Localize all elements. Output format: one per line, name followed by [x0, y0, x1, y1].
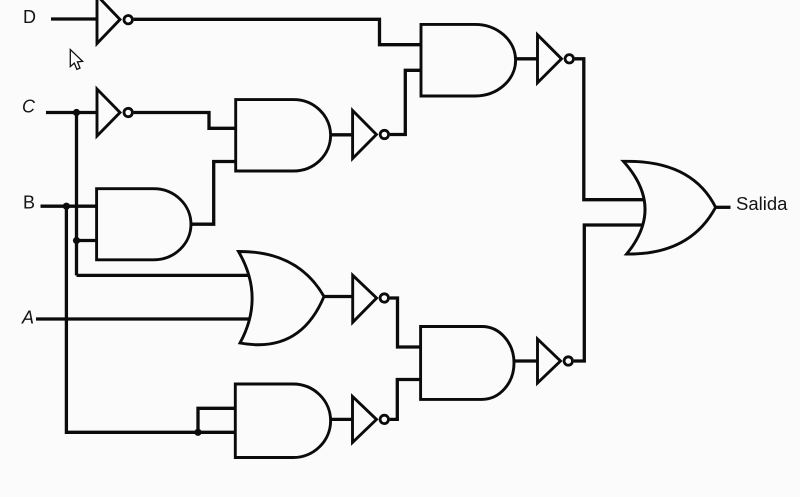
- OR gate U8 (C or A): [239, 251, 325, 344]
- wire C branch to OR U8 top input: [77, 274, 253, 277]
- junction dot on B branch bottom: [194, 429, 201, 436]
- wire branch to AND U10 top input: [198, 408, 235, 432]
- bubble U5: [380, 130, 388, 138]
- wire A input to OR U8 lower input: [36, 317, 254, 320]
- wire C input: [46, 111, 97, 114]
- bubble U7: [565, 55, 573, 63]
- OR gate U13 (final): [623, 161, 715, 254]
- inverter U14: [538, 339, 561, 383]
- inverter U9: [353, 275, 377, 322]
- svg-text:D: D: [23, 7, 36, 27]
- bubble U9: [380, 294, 388, 302]
- AND gate U11: [421, 327, 514, 400]
- wire B input: [41, 205, 97, 208]
- wire U11 output: [514, 359, 538, 362]
- AND gate U10 (bottom, B buffer): [235, 384, 330, 458]
- wire U2 output to AND U4 top input: [134, 113, 236, 129]
- wire B vertical branch: [66, 206, 235, 432]
- bubble U2: [124, 108, 132, 116]
- bubble U14: [564, 357, 572, 365]
- svg-text:A: A: [21, 308, 34, 328]
- wire U5 output to AND U6 lower input: [390, 70, 421, 134]
- wire U7 output to OR U13 top input: [575, 59, 645, 200]
- wire C vertical branch: [75, 113, 78, 276]
- wire D input: [51, 17, 97, 20]
- svg-text:Salida: Salida: [736, 193, 788, 214]
- bubble U12: [380, 415, 388, 423]
- junction dot on C branch: [73, 237, 80, 244]
- inverter U1 (NOT on D): [97, 0, 120, 44]
- wire U10 output: [331, 418, 353, 421]
- wire C branch to AND U3 lower input: [77, 239, 97, 242]
- wire U1 output to AND U6 top input: [134, 19, 421, 44]
- svg-text:B: B: [23, 193, 35, 213]
- wire U9 output to AND U11 top input: [390, 298, 421, 347]
- wire U14 output to OR U13 lower input: [574, 225, 643, 361]
- wire U3 output to AND U4 lower input: [191, 162, 236, 225]
- AND gate U4 (notC and U3): [236, 100, 331, 171]
- inverter U2 (NOT on C): [97, 89, 120, 136]
- wire U4 output: [331, 133, 353, 136]
- wire U12 output to AND U11 lower input: [390, 380, 421, 420]
- inverter U12: [353, 397, 377, 443]
- inverter U5: [353, 111, 377, 159]
- bubble U1: [124, 16, 132, 24]
- wire U6 output: [516, 57, 538, 60]
- cursor arrow: [70, 50, 82, 70]
- AND gate U3 (B and C): [97, 189, 191, 260]
- svg-text:C: C: [22, 97, 36, 117]
- AND gate U6 (top): [421, 24, 516, 96]
- wire U13 output: [716, 206, 731, 209]
- junction dot on B: [63, 203, 70, 210]
- inverter U7: [538, 35, 562, 83]
- wire U8 output: [324, 295, 353, 298]
- junction dot on C: [73, 109, 80, 116]
